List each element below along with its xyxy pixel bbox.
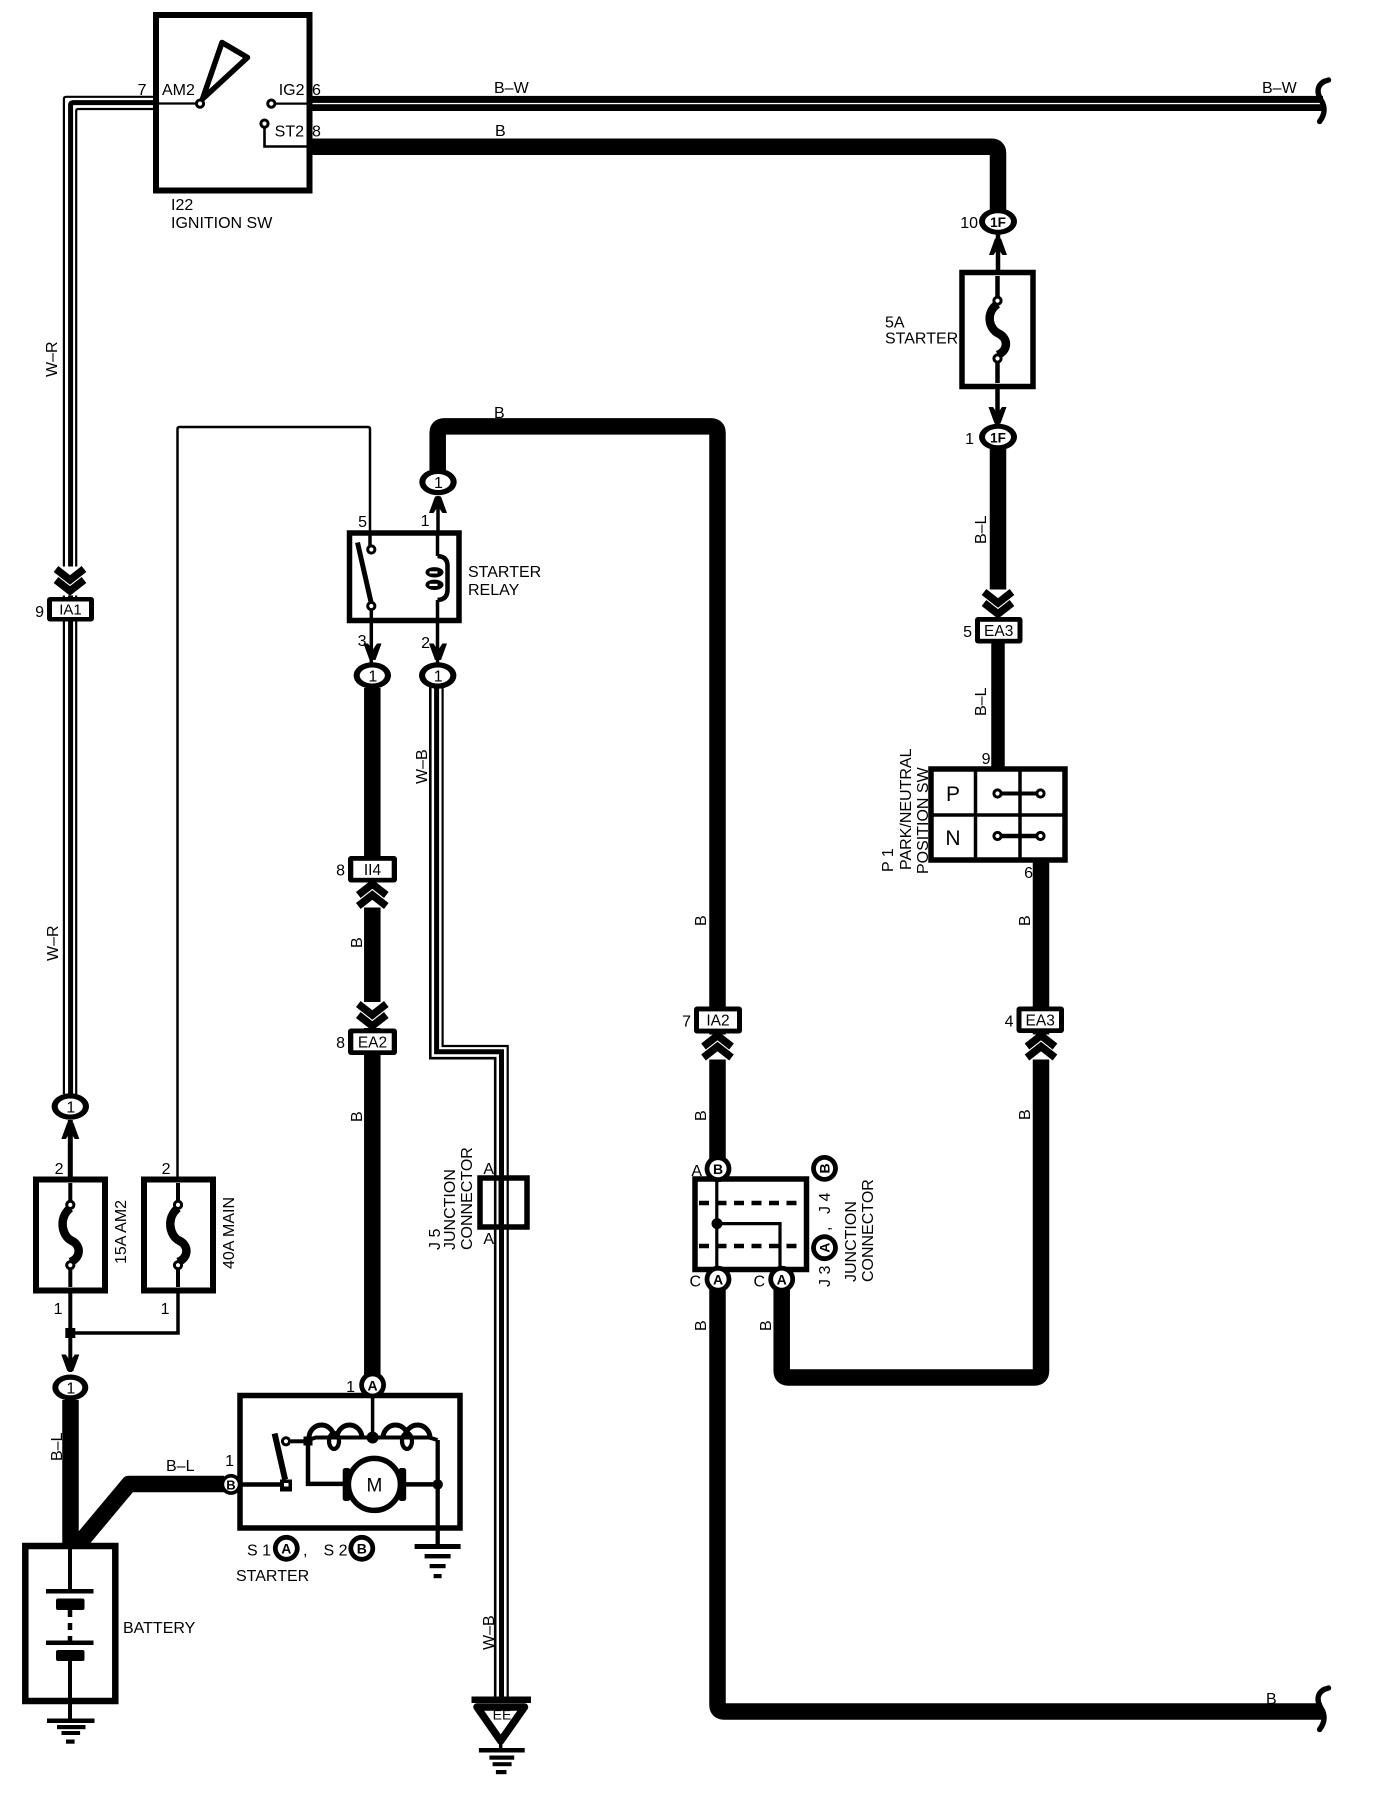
- svg-text:2: 2: [55, 1161, 64, 1178]
- splice oval 1 (above battery): [52, 1375, 88, 1401]
- arrow into EA3-4 (double chevron up): [1024, 1035, 1058, 1060]
- wire thin relay pin3 to oval: [370, 620, 374, 663]
- wire B main (starter relay pin1 oval, right, down left side, bottom to right edge): [438, 426, 718, 1163]
- arrow into left splice oval (tulip up): [61, 1123, 79, 1140]
- fuse 15A AM2: [36, 1161, 105, 1318]
- svg-text:W–R: W–R: [45, 925, 62, 961]
- svg-text:IA2: IA2: [706, 1013, 729, 1030]
- svg-text:A: A: [368, 1377, 378, 1393]
- svg-text:1: 1: [434, 669, 443, 686]
- svg-text:B: B: [817, 1163, 833, 1173]
- arrow into EA2 (double chevron down): [355, 1002, 389, 1028]
- svg-text:1: 1: [66, 1100, 75, 1117]
- svg-text:1: 1: [434, 475, 443, 492]
- splice oval 1 (relay pin1): [419, 469, 456, 496]
- continuation squiggle B-W: [1318, 82, 1324, 122]
- svg-text:8: 8: [312, 124, 321, 141]
- svg-text:40A MAIN: 40A MAIN: [221, 1197, 238, 1269]
- splice oval 1 (relay pin3): [354, 662, 391, 689]
- svg-text:A: A: [483, 1161, 494, 1178]
- arrow into relay pin2 oval (tulip down): [429, 644, 447, 661]
- wire label B (relay pin3 run lower): [349, 1111, 366, 1122]
- wire B-L thick (splice oval to battery): [62, 1400, 79, 1546]
- svg-text:STARTER: STARTER: [885, 331, 958, 348]
- connector 8 II4: [336, 856, 397, 883]
- ground at starter: [415, 1544, 461, 1578]
- svg-text:10: 10: [960, 215, 978, 232]
- junction dot fuse outputs: [65, 1328, 75, 1338]
- svg-text:II4: II4: [364, 862, 382, 879]
- svg-text:2: 2: [421, 635, 430, 652]
- svg-text:B: B: [693, 915, 710, 926]
- ground below battery: [47, 1701, 95, 1744]
- svg-text:1: 1: [66, 1381, 75, 1398]
- ignition switch I22 box: [156, 15, 310, 191]
- svg-text:1: 1: [965, 431, 974, 448]
- splice 1 1F oval: [965, 424, 1017, 450]
- svg-text:J 3: J 3: [817, 1266, 834, 1287]
- wire label B-L lower right: [973, 687, 990, 716]
- splice oval 1 (relay pin2): [419, 662, 456, 689]
- svg-text:IA1: IA1: [59, 602, 82, 619]
- svg-text:B: B: [693, 1110, 710, 1121]
- svg-text:RELAY: RELAY: [468, 582, 520, 599]
- svg-text:1: 1: [368, 669, 377, 686]
- svg-text:JUNCTION: JUNCTION: [442, 1169, 459, 1250]
- svg-text:6: 6: [1024, 865, 1033, 882]
- wire thin 5A fuse to 1F-1 oval: [995, 360, 1000, 430]
- wire W-R bundle horizontal+vertical (ignition AM2 to IA1 and splice): [64, 97, 156, 1094]
- svg-text:1: 1: [421, 513, 430, 530]
- svg-text:B–W: B–W: [494, 80, 530, 97]
- label JUNCTION CONNECTOR rotated (J3/J4): [843, 1201, 860, 1282]
- starter relay box: [350, 533, 460, 621]
- svg-text:6: 6: [312, 82, 321, 99]
- arrow into IA2 (double chevron up): [701, 1035, 735, 1060]
- internal branch wire to right C-A: [717, 1224, 780, 1268]
- wire thin 15A fuse pin1 to junction dot to splice oval: [68, 1268, 72, 1372]
- svg-text:A: A: [817, 1243, 833, 1253]
- svg-text:1: 1: [161, 1301, 170, 1318]
- relay coil: [436, 534, 440, 556]
- relay pin3 internal wire: [370, 609, 374, 620]
- internal wire through left: [715, 1180, 718, 1268]
- wire B-L thick branch (battery top to starter B ring): [73, 1484, 224, 1551]
- connector 4 EA3: [1005, 1007, 1064, 1034]
- svg-text:5: 5: [963, 624, 972, 641]
- splice oval 1 (left, above fuses): [52, 1093, 89, 1120]
- svg-text:ST2: ST2: [275, 124, 304, 141]
- svg-text:B–L: B–L: [973, 515, 990, 544]
- svg-text:PARK/NEUTRAL: PARK/NEUTRAL: [898, 748, 915, 870]
- relay pin5 internal wire: [368, 534, 372, 546]
- starter internal: magnetic switch: [242, 1434, 313, 1492]
- svg-text:M: M: [366, 1476, 382, 1497]
- svg-text:P 1: P 1: [880, 848, 897, 872]
- svg-text:B: B: [1266, 1691, 1277, 1708]
- starter motor M: [343, 1458, 407, 1510]
- svg-text:B: B: [349, 937, 366, 948]
- svg-text:W–B: W–B: [481, 1615, 498, 1650]
- svg-text:IG2: IG2: [279, 82, 305, 99]
- starter internal: motor to right junction: [406, 1482, 438, 1487]
- svg-text:A: A: [691, 1163, 702, 1180]
- contact IG2: [271, 102, 307, 104]
- relay switch lever: [358, 543, 372, 603]
- label J5 JUNCTION CONNECTOR rotated: [427, 1229, 444, 1250]
- svg-text:STARTER: STARTER: [236, 1568, 309, 1585]
- svg-text:1F: 1F: [990, 431, 1006, 446]
- starter internal: field coil: [308, 1425, 438, 1449]
- svg-text:B–W: B–W: [1262, 80, 1298, 97]
- wire label B-L (left vertical): [49, 1432, 66, 1461]
- wire B-W (ignition IG2 to right edge): [307, 96, 1323, 111]
- svg-text:7: 7: [682, 1014, 691, 1031]
- connector 9 IA1: [35, 597, 94, 622]
- internal dashed bus row 1: [699, 1201, 802, 1206]
- wire label B left-main upper: [693, 915, 710, 926]
- svg-text:EE: EE: [493, 1707, 512, 1723]
- wire thin relay pin2 to oval: [436, 620, 440, 663]
- svg-text:W–B: W–B: [414, 749, 431, 784]
- svg-text:3: 3: [358, 633, 367, 650]
- splice 10 1F oval: [960, 208, 1017, 234]
- arrow into relay pin3 oval (tulip down): [364, 644, 382, 661]
- battery: [25, 1546, 115, 1701]
- wire label B below left C ring: [693, 1320, 710, 1331]
- arrow into 1F-10 oval (tulip up): [989, 239, 1007, 256]
- internal dashed bus row 2: [699, 1244, 802, 1249]
- connector J5 box: [480, 1178, 527, 1227]
- wire thin relay pin1 to oval: [436, 496, 440, 533]
- arrow into EA3-5 (double chevron down): [981, 590, 1015, 617]
- wire label B left-main mid: [693, 1110, 710, 1121]
- svg-text:1: 1: [346, 1379, 355, 1396]
- svg-text:I22: I22: [171, 197, 193, 214]
- fuse 15A AM2 name rotated: [113, 1200, 130, 1264]
- wire label W-R upper: [44, 341, 61, 377]
- svg-text:B: B: [1017, 915, 1034, 926]
- wire thin junction dot to 40A MAIN pin1: [70, 1268, 178, 1333]
- svg-text:A: A: [281, 1541, 291, 1557]
- arrow into lower splice oval (tulip down): [61, 1355, 79, 1372]
- internal junction dot: [712, 1218, 723, 1229]
- svg-text:5: 5: [358, 514, 367, 531]
- svg-text:CONNECTOR: CONNECTOR: [459, 1147, 476, 1250]
- svg-text:BATTERY: BATTERY: [123, 1620, 196, 1637]
- ring A (starter pin 1 top): [346, 1372, 386, 1399]
- arrow into IA1 (double chevron down): [53, 567, 87, 596]
- ring B (starter pin 1 left): [221, 1453, 242, 1495]
- svg-text:B: B: [349, 1111, 366, 1122]
- ring A (junction connector bottom left): [689, 1266, 731, 1293]
- svg-text:B–L: B–L: [166, 1458, 195, 1475]
- wire label W-B upper: [414, 749, 431, 784]
- svg-text:B: B: [693, 1320, 710, 1331]
- svg-text:W–R: W–R: [44, 341, 61, 377]
- svg-text:C: C: [753, 1274, 765, 1291]
- svg-text:B: B: [1017, 1109, 1034, 1120]
- continuation squiggle B bottom right: [1318, 1690, 1324, 1730]
- svg-text:15A AM2: 15A AM2: [113, 1200, 130, 1264]
- starter internal: wire from ring A down: [371, 1396, 375, 1437]
- svg-text:B: B: [758, 1320, 775, 1331]
- svg-text:EA2: EA2: [358, 1035, 387, 1052]
- svg-text:S 1: S 1: [247, 1543, 271, 1560]
- svg-text:2: 2: [162, 1161, 171, 1178]
- svg-text:EA3: EA3: [984, 623, 1013, 640]
- junction connector J3/J4 box: [695, 1179, 807, 1270]
- wire thin 40A MAIN pin2 up and over to starter relay pin 5: [178, 427, 371, 1202]
- svg-text:9: 9: [35, 604, 44, 621]
- arrow into relay pin1 oval (tulip up): [429, 497, 447, 514]
- starter internal: link from switch dot down to motor line: [308, 1441, 344, 1484]
- park/neutral switch name P1 PARK/NEUTRAL POSITION SW (rotated): [880, 848, 897, 872]
- park/neutral position switch P1 box: [931, 769, 1065, 860]
- fuse 40A MAIN: [144, 1161, 213, 1318]
- svg-text:B: B: [357, 1541, 367, 1557]
- wire B (ignition ST2 to connector 1F pin 10): [307, 147, 998, 215]
- ground EE: [472, 1697, 532, 1775]
- connector 8 EA2: [336, 1029, 397, 1056]
- P row contacts: [998, 792, 1041, 796]
- svg-text:B: B: [226, 1478, 235, 1493]
- ignition key lever: [203, 43, 248, 100]
- ring A (junction connector bottom right): [753, 1266, 795, 1293]
- svg-text:STARTER: STARTER: [468, 564, 541, 581]
- arrow into II4 (double chevron up): [355, 883, 389, 908]
- contact ST2: [265, 126, 308, 147]
- svg-text:B–L: B–L: [49, 1432, 66, 1461]
- svg-text:B: B: [713, 1161, 723, 1177]
- svg-text:1: 1: [225, 1453, 234, 1470]
- wire label W-R lower: [45, 925, 62, 961]
- fuse 40A MAIN name rotated: [221, 1197, 238, 1269]
- wire label B below right C ring: [758, 1320, 775, 1331]
- contact AM2: [156, 102, 196, 104]
- svg-text:B: B: [495, 123, 506, 140]
- svg-text:C: C: [689, 1274, 701, 1291]
- fuse 5A STARTER: [885, 273, 1033, 387]
- connector 5 EA3: [963, 617, 1022, 644]
- svg-text:B–L: B–L: [973, 687, 990, 716]
- wire label W-B lower: [481, 1615, 498, 1650]
- wire thin splice oval to 15A fuse: [68, 1120, 73, 1202]
- wire B-L (1F-1 to EA3-5 to park/neutral sw pin 9): [990, 445, 1007, 600]
- svg-text:EA3: EA3: [1026, 1013, 1055, 1030]
- arrow into 1F-1 oval (tulip down): [989, 407, 1007, 424]
- N row contacts: [998, 834, 1041, 839]
- label J3 (A) , J4 (B) rotated: [817, 1266, 834, 1287]
- wire B (park/neutral sw pin 6 to EA3-4): [1033, 858, 1050, 1008]
- svg-text:9: 9: [982, 751, 991, 768]
- svg-text:A: A: [483, 1231, 494, 1248]
- svg-text:N: N: [945, 827, 960, 850]
- svg-text:1: 1: [54, 1301, 63, 1318]
- ring B (junction connector pin A top): [691, 1155, 731, 1182]
- svg-text:J 4: J 4: [817, 1193, 834, 1214]
- wire label B (relay pin3 run upper): [349, 937, 366, 948]
- wire label B right upper: [1017, 915, 1034, 926]
- svg-text:POSITION SW: POSITION SW: [915, 766, 932, 874]
- svg-text:A: A: [713, 1272, 723, 1288]
- svg-text:IGNITION SW: IGNITION SW: [171, 215, 273, 232]
- wire W-B bundle (relay pin2 oval down, jog right, through J5 to EE ground): [430, 687, 507, 1697]
- svg-text:1F: 1F: [990, 215, 1006, 230]
- svg-text:S 2: S 2: [324, 1543, 348, 1560]
- svg-text:JUNCTION: JUNCTION: [843, 1201, 860, 1282]
- svg-text:,: ,: [303, 1543, 307, 1560]
- starter box: [240, 1396, 460, 1529]
- svg-text:P: P: [946, 783, 960, 806]
- svg-text:B: B: [494, 405, 505, 422]
- svg-text:,: ,: [817, 1227, 834, 1231]
- svg-text:8: 8: [336, 1035, 345, 1052]
- svg-text:A: A: [777, 1272, 787, 1288]
- wire label B right lower: [1017, 1109, 1034, 1120]
- wire B (EA3-4 down, U-turn to junction connector C-A right): [782, 1032, 1041, 1378]
- svg-text:5A: 5A: [885, 315, 905, 332]
- svg-text:4: 4: [1005, 1014, 1014, 1031]
- svg-text:8: 8: [336, 863, 345, 880]
- wire thin 1F-10 oval to 5A fuse: [996, 232, 1001, 300]
- wire label B-L upper right: [973, 515, 990, 544]
- wire B thick (relay pin3 oval down through II4 and EA2 to starter ring A): [364, 688, 381, 1386]
- connector 7 IA2: [682, 1007, 742, 1034]
- svg-text:7: 7: [138, 82, 147, 99]
- svg-text:CONNECTOR: CONNECTOR: [860, 1179, 877, 1282]
- starter internal: coil right end down to junction and ground: [436, 1440, 440, 1546]
- svg-text:AM2: AM2: [162, 82, 195, 99]
